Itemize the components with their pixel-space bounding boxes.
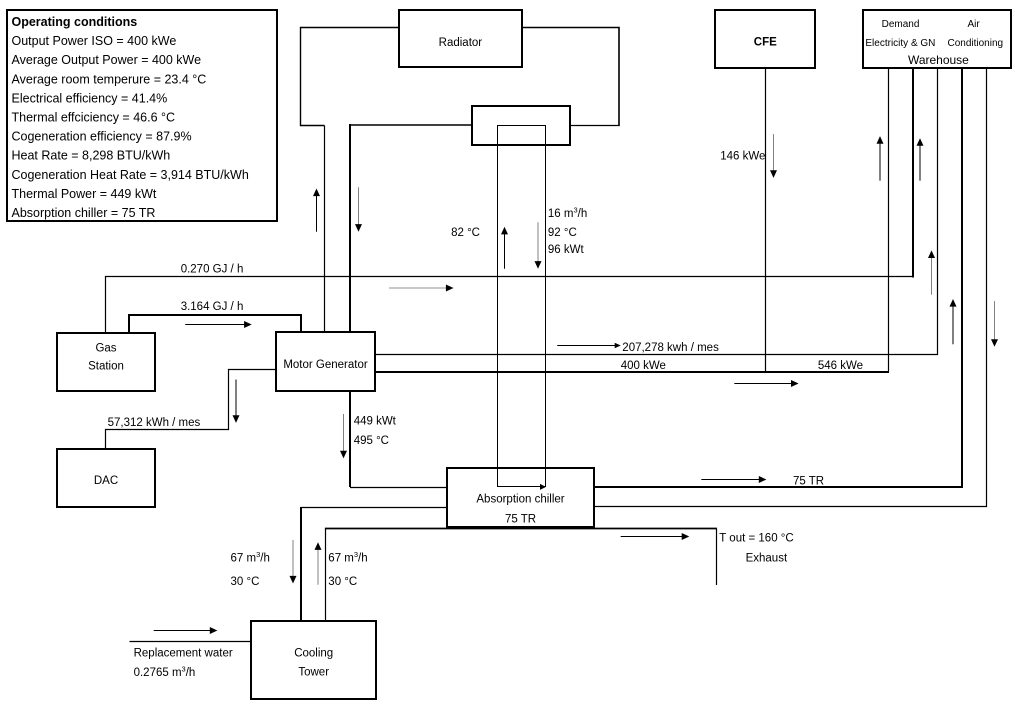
box Radiator [399, 10, 522, 67]
wire U-loop inside heat exchanger [498, 126, 546, 145]
svg-text:Cogeneration efficiency = 87.9: Cogeneration efficiency = 87.9% [12, 130, 192, 144]
svg-text:Electricity & GN: Electricity & GN [865, 38, 935, 49]
wire heat-exchanger to motor generator (thick) [350, 124, 472, 126]
svg-text:Conditioning: Conditioning [947, 38, 1003, 49]
svg-text:67 m3/h: 67 m3/h [231, 550, 270, 565]
svg-text:Cogeneration Heat Rate = 3,914: Cogeneration Heat Rate = 3,914 BTU/kWh [12, 168, 249, 182]
svg-text:Exhaust: Exhaust [746, 553, 788, 565]
box CFE [715, 10, 815, 68]
arrow down 449 kWt flow (gray shaft) [343, 414, 345, 451]
svg-text:400 kWe: 400 kWe [621, 360, 666, 372]
svg-text:16 m3/h: 16 m3/h [548, 206, 587, 221]
svg-text:Output Power ISO = 400 kWe: Output Power ISO = 400 kWe [12, 34, 177, 48]
svg-text:30 °C: 30 °C [231, 576, 260, 588]
arrow head U-loop inside chiller (over box) [540, 484, 546, 490]
wire U-loop inside absorption chiller [498, 469, 546, 487]
arrow head U-loop inside chiller [540, 484, 546, 490]
svg-text:Electrical efficiency = 41.4%: Electrical efficiency = 41.4% [12, 91, 168, 105]
arrow right 0.270 GJ/h flow (gray shaft) [389, 287, 447, 289]
svg-text:Gas: Gas [95, 342, 116, 354]
box Cooling Tower [251, 621, 376, 699]
svg-text:Thermal effciciency = 46.6 °C: Thermal effciciency = 46.6 °C [12, 111, 176, 125]
arrow down chilled return riser (gray shaft) [994, 301, 996, 340]
svg-text:Average Output Power = 400 kWe: Average Output Power = 400 kWe [12, 53, 202, 67]
svg-text:Demand: Demand [882, 19, 920, 30]
wire 75 TR chilled water (thick) [594, 486, 963, 488]
wire 449 kWt exhaust riser (thick) [349, 391, 351, 487]
wire 3.164 GJ/h gas line (thick) [129, 315, 301, 333]
wire chiller to cooling tower supply [301, 507, 447, 509]
svg-text:0.270 GJ / h: 0.270 GJ / h [181, 263, 244, 275]
svg-text:30 °C: 30 °C [328, 576, 357, 588]
svg-text:207,278 kwh / mes: 207,278 kwh / mes [622, 342, 719, 354]
svg-text:82 °C: 82 °C [451, 227, 480, 239]
svg-text:Replacement water: Replacement water [134, 648, 233, 660]
box Absorption chiller [447, 468, 594, 527]
svg-text:92 °C: 92 °C [548, 227, 577, 239]
svg-text:T out = 160 °C: T out = 160 °C [719, 533, 793, 545]
arrow right replacement water [154, 630, 211, 632]
wire warehouse chilled supply riser (thick) [961, 68, 963, 488]
wire exhaust duct run [325, 528, 717, 530]
arrow up warehouse electricity [879, 143, 881, 181]
svg-text:75 TR: 75 TR [793, 476, 824, 488]
svg-text:546 kWe: 546 kWe [818, 360, 863, 372]
svg-text:449 kWt: 449 kWt [354, 416, 397, 428]
wire warehouse electricity riser [888, 68, 890, 372]
wire 0.270 GJ/h gas line [106, 277, 914, 334]
box Motor Generator [276, 332, 375, 391]
wire hot water U-loop heat-exchanger to absorption chiller [498, 126, 546, 487]
svg-text:Heat Rate = 8,298 BTU/kWh: Heat Rate = 8,298 BTU/kWh [12, 149, 171, 163]
arrow up radiator supply [316, 196, 318, 232]
wire CFE 146 kWe feed [765, 68, 767, 372]
svg-text:Absorption chiller = 75 TR: Absorption chiller = 75 TR [12, 206, 156, 220]
arrow up 82C hot water [504, 234, 506, 269]
svg-text:96 kWt: 96 kWt [548, 244, 585, 256]
svg-text:Air: Air [967, 19, 980, 30]
svg-text:CFE: CFE [754, 36, 777, 48]
svg-text:Radiator: Radiator [439, 37, 483, 49]
wire radiator supply drop to motor generator [324, 126, 326, 334]
wire cooling tower return riser [325, 529, 327, 623]
svg-text:Absorption chiller: Absorption chiller [476, 494, 564, 506]
wire cooling tower supply drop (thick) [300, 507, 302, 622]
arrow down cooling supply (gray shaft) [292, 540, 294, 577]
wire radiator return to heat exchanger [570, 125, 620, 127]
svg-text:Cooling: Cooling [294, 648, 333, 660]
arrow down radiator return (gray shaft) [358, 187, 360, 225]
arrow down DAC flow [235, 380, 237, 416]
wire replacement water [130, 641, 252, 643]
wire exhaust outlet drop [716, 529, 718, 586]
arrow right 400 kWe flow [734, 383, 791, 385]
svg-text:Warehouse: Warehouse [908, 53, 969, 67]
svg-text:Thermal Power = 449 kWt: Thermal Power = 449 kWt [12, 187, 157, 201]
svg-text:Average room temperure = 23.4: Average room temperure = 23.4 °C [12, 72, 207, 86]
svg-text:DAC: DAC [94, 475, 118, 487]
arrow right 75 TR flow [701, 479, 759, 481]
wire chilled water return [594, 68, 987, 507]
arrow up chilled supply riser [952, 306, 954, 344]
svg-text:57,312 kWh / mes: 57,312 kWh / mes [108, 417, 201, 429]
wire 207,278 kwh/mes electricity [374, 68, 938, 355]
box Warehouse [863, 10, 1011, 68]
wire warehouse GN drop (thick) [912, 68, 914, 278]
svg-text:67 m3/h: 67 m3/h [328, 550, 367, 565]
box Operating conditions [7, 10, 277, 221]
svg-text:Motor Generator: Motor Generator [283, 359, 368, 371]
arrow up 207,278 riser (gray shaft) [931, 257, 933, 294]
wire radiator supply loop (left) [301, 28, 400, 126]
svg-text:146 kWe: 146 kWe [720, 151, 765, 163]
svg-text:495 °C: 495 °C [354, 435, 389, 447]
arrow right 207,278 kwh/mes [557, 345, 615, 347]
box DAC [57, 449, 155, 507]
svg-text:Operating conditions: Operating conditions [12, 15, 138, 29]
box Gas Station [57, 333, 155, 391]
arrow down 146 kWe CFE (gray shaft) [773, 134, 775, 171]
wire motor generator to DAC 57,312 kWh/mes [106, 370, 277, 451]
arrow up warehouse GN [919, 145, 921, 180]
svg-text:3.164 GJ / h: 3.164 GJ / h [181, 301, 244, 313]
svg-text:75 TR: 75 TR [505, 514, 536, 526]
arrow up cooling return (gray shaft) [317, 549, 319, 585]
wire 400 kWe / 546 kWe electricity (thick) [374, 371, 889, 373]
svg-text:0.2765 m3/h: 0.2765 m3/h [134, 664, 196, 679]
arrow right exhaust flow [621, 536, 683, 538]
svg-text:Station: Station [88, 360, 124, 372]
box heat exchanger [472, 106, 570, 145]
arrow down 92C hot water (gray shaft) [537, 222, 539, 262]
wire radiator return loop (right) [522, 28, 619, 126]
wire 449 kWt to absorption chiller [350, 487, 447, 489]
svg-text:Tower: Tower [298, 667, 329, 679]
arrow right 3.164 GJ/h flow [185, 324, 245, 326]
